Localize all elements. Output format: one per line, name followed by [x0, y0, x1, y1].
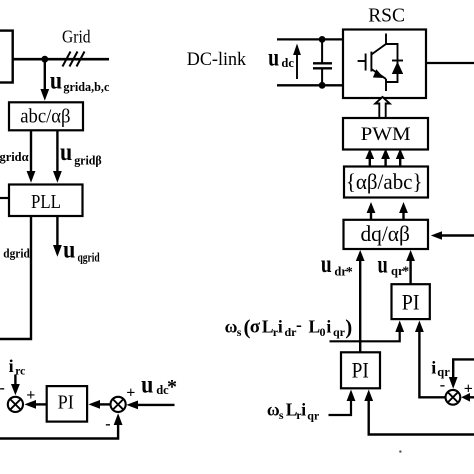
summing junction sum3 — [446, 390, 461, 405]
wires dq/alphabeta to alphabeta/abc (two arrows) — [370, 212, 372, 220]
svg-text:*: * — [167, 376, 177, 398]
svg-text:u: u — [50, 67, 62, 94]
svg-text:PI: PI — [58, 392, 74, 414]
svg-text:u: u — [321, 251, 332, 278]
wire PLL left stub — [0, 197, 9, 199]
svg-text:i: i — [278, 316, 283, 336]
node top rail junction — [319, 36, 326, 43]
svg-text:0: 0 — [320, 325, 326, 339]
wire i_rc arrow into sum1 — [14, 375, 16, 386]
wire u_dr* from PI2 up to dq/alphabeta — [359, 260, 361, 352]
svg-text:s: s — [279, 408, 284, 422]
wire u_grid abc down — [44, 59, 46, 90]
svg-text:RSC: RSC — [368, 5, 405, 27]
svg-text:L: L — [309, 316, 321, 336]
capacitor C dc-link — [321, 39, 323, 63]
svg-text:ω: ω — [225, 316, 238, 336]
open arrow PWM to RSC — [375, 97, 389, 118]
svg-text:rc: rc — [15, 366, 25, 378]
transistor IGBT gate — [365, 54, 367, 71]
svg-text:dc: dc — [281, 56, 294, 70]
node grid tap junction — [41, 56, 48, 63]
wire u_dgrid output down then left — [0, 216, 31, 339]
svg-text:grida,b,c: grida,b,c — [63, 80, 109, 94]
block abc/alphabeta — [9, 102, 83, 130]
svg-text:u: u — [268, 44, 279, 71]
svg-text:gridα: gridα — [0, 150, 29, 164]
svg-text:PI: PI — [402, 289, 420, 314]
wire u_gridbeta — [56, 130, 58, 172]
svg-text:i: i — [431, 358, 436, 378]
block PWM — [343, 118, 428, 150]
svg-text:qgrid: qgrid — [78, 251, 100, 265]
svg-text:DC-link: DC-link — [187, 49, 247, 70]
svg-text:dq/αβ: dq/αβ — [360, 221, 410, 246]
wire i_qr into sum3 top — [453, 359, 474, 378]
svg-text:): ) — [345, 315, 352, 339]
transistor IGBT emitter stub — [385, 79, 387, 91]
svg-text:PLL: PLL — [31, 191, 61, 213]
block alphabeta/abc — [344, 167, 428, 198]
wire dc bus top rail — [277, 38, 343, 40]
block dq/alphabeta — [344, 220, 429, 249]
svg-text:u: u — [60, 139, 72, 166]
wire u_qr* from PI3 up to dq/alphabeta — [409, 260, 411, 284]
svg-text:i: i — [9, 356, 14, 376]
summing junction sum1 — [8, 397, 23, 412]
wire i_dr feedback into PI2 bottom-right — [369, 400, 474, 435]
block PI3 (q-axis current PI) — [392, 284, 430, 319]
block GSC (cut off at left edge) — [0, 31, 13, 83]
wire u_dc feedback into sum2 bottom — [0, 424, 118, 439]
u_dc measurement arrow up — [296, 54, 298, 79]
transistor IGBT collector stub — [385, 34, 387, 45]
wire u_gridalpha — [30, 130, 32, 172]
node bottom rail junction — [319, 82, 326, 89]
svg-text:PWM: PWM — [361, 124, 411, 145]
svg-text:*: * — [402, 264, 409, 279]
svg-text:s: s — [237, 325, 242, 339]
svg-text:qr: qr — [333, 325, 346, 339]
block PI1 — [47, 386, 87, 422]
block RSC converter — [343, 30, 426, 99]
wire PI1 to sum1 arrow — [35, 403, 47, 405]
wire omega_s Lr iqr into PI2 bottom-left — [329, 400, 352, 415]
diode antiparallel — [386, 44, 398, 82]
svg-text:σ: σ — [250, 316, 261, 337]
svg-text:u: u — [378, 252, 388, 279]
wire grid bus — [13, 58, 109, 61]
svg-text:i: i — [301, 400, 306, 420]
artifact dot — [399, 450, 401, 452]
svg-text:PI: PI — [352, 358, 369, 383]
transistor IGBT emitter diagonal with arrow — [371, 69, 386, 79]
wires alphabeta-abc to PWM (three arrows) — [369, 158, 371, 167]
svg-text:-: - — [296, 315, 302, 335]
wire sum3 output up into PI3 bottom-right — [419, 331, 446, 397]
wire dc bus bottom rail — [277, 84, 343, 86]
svg-text:u: u — [141, 371, 153, 398]
block PLL — [9, 185, 83, 217]
svg-text:*: * — [346, 264, 353, 279]
svg-text:abc/αβ: abc/αβ — [20, 105, 70, 127]
transistor IGBT collector diagonal — [371, 44, 386, 55]
wire theta input into dq/alphabeta right — [440, 234, 474, 236]
block PI2 (d-axis current PI) — [341, 352, 380, 388]
wire u_dc* into sum2 — [137, 404, 175, 406]
svg-text:-: - — [105, 416, 110, 433]
svg-text:dgrid: dgrid — [3, 247, 30, 261]
svg-text:Grid: Grid — [62, 27, 91, 47]
svg-text:+: + — [126, 385, 135, 402]
svg-text:qr: qr — [307, 409, 320, 423]
svg-text:-: - — [0, 380, 5, 397]
wire u_qgrid output arrow — [56, 216, 58, 246]
wire RSC output to rotor — [426, 62, 474, 64]
svg-text:u: u — [63, 237, 75, 264]
svg-text:gridβ: gridβ — [74, 153, 102, 167]
svg-text:{αβ/abc}: {αβ/abc} — [346, 169, 423, 194]
wire sum2 to PI1 arrow — [99, 403, 111, 405]
summing junction sum2 — [111, 397, 126, 412]
wire i_qr* setpoint into sum3 right — [469, 396, 474, 398]
three-phase slash marks — [63, 52, 85, 67]
svg-text:i: i — [326, 316, 331, 336]
svg-text:-: - — [440, 377, 445, 394]
wire compensation term into PI3 bottom-left — [330, 331, 400, 341]
